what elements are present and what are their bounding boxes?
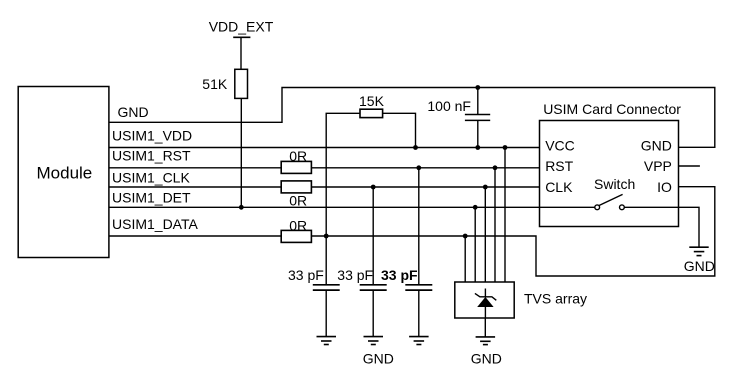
svg-text:TVS array: TVS array [524,291,587,307]
junction cap2 / USIM1_CLK [371,185,376,190]
wire USIM1_DATA right segment to IO pin [312,187,715,276]
svg-text:GND: GND [471,351,502,367]
resistor 51K body [235,69,248,98]
junction cap3 / USIM1_RST [416,165,421,170]
svg-text:51K: 51K [202,76,228,92]
junction 51K / USIM1_DET [239,205,244,210]
wire 15K right lead down to VDD line [383,113,416,147]
svg-text:GND: GND [363,351,394,367]
junction TVS / USIM1_VDD [503,145,508,150]
ground symbol cap1 [317,337,337,345]
wire TVS pin3 to USIM1_CLK [484,187,486,282]
svg-text:100 nF: 100 nF [427,98,471,114]
svg-text:VCC: VCC [545,138,575,154]
wire TVS pin4 to USIM1_RST [494,168,496,282]
resistor 0R (RST) [281,161,311,173]
junction TVS / USIM1_CLK [483,185,488,190]
svg-text:33 pF: 33 pF [337,267,373,283]
TVS array box [455,282,514,318]
svg-text:33 pF: 33 pF [288,267,324,283]
ground symbol cap2 [364,337,384,345]
module box [18,87,109,258]
svg-text:Switch: Switch [594,176,635,192]
svg-text:USIM1_DET: USIM1_DET [112,190,191,206]
svg-text:GND: GND [118,104,149,120]
switch contact right [620,205,625,210]
junction 15K / USIM1_DATA [324,234,329,239]
wire USIM1_DET (module to switch) [109,206,595,208]
junction TVS / USIM1_RST [493,165,498,170]
junction TVS / USIM1_DET [473,205,478,210]
svg-text:VPP: VPP [644,158,672,174]
wire VPP stub [679,165,700,167]
svg-text:CLK: CLK [545,179,573,195]
wire TVS to ground [484,318,486,337]
resistor 0R (DATA) [281,230,311,242]
svg-text:RST: RST [545,158,573,174]
wire 15K left lead down to DATA line [326,113,360,236]
resistor 15K body [360,109,383,117]
junction TVS / USIM1_DATA [463,234,468,239]
wire USIM1_VDD (module to VCC pin) [109,147,540,149]
capacitor 33 pF #3 [405,168,432,337]
svg-text:0R: 0R [289,193,307,209]
svg-text:0R: 0R [289,218,307,234]
svg-text:Module: Module [37,164,93,183]
wire USIM1_RST left segment [109,167,281,169]
junction 15K / USIM1_VDD [413,145,418,150]
svg-text:0R: 0R [289,148,307,164]
svg-text:IO: IO [657,179,672,195]
junction 100nF / USIM1_VDD [475,145,480,150]
wire GND net (module to connector GND pin, top rail) [109,88,715,148]
svg-text:USIM1_RST: USIM1_RST [112,147,191,163]
power symbol VDD_EXT [233,37,250,69]
ground symbol cap3 [409,337,429,345]
wire TVS pin1 to USIM1_DATA [464,236,466,282]
wire USIM1_CLK left segment [109,186,281,188]
ground symbol TVS [476,337,496,345]
capacitor 33 pF #1 [313,236,340,337]
ground symbol switch [689,247,708,255]
svg-text:USIM1_DATA: USIM1_DATA [112,216,198,232]
resistor 0R (CLK) [281,181,311,193]
wire TVS pin2 to USIM1_DET [474,207,476,282]
wire USIM1_CLK right segment [312,186,540,188]
svg-text:VDD_EXT: VDD_EXT [209,19,274,35]
capacitor 33 pF #2 [360,187,387,337]
wire switch to ground [624,207,699,247]
svg-text:33 pF: 33 pF [381,267,418,283]
wire USIM1_RST right segment [312,167,540,169]
connector box USIM Card Connector [540,121,679,227]
wire USIM1_DATA left segment [109,235,281,237]
diode TVS (zener symbol inside box) [475,289,496,319]
svg-text:GND: GND [684,258,715,274]
switch contact left [595,205,600,210]
svg-text:USIM1_CLK: USIM1_CLK [112,169,190,185]
junction 100nF / GND rail [475,85,480,90]
capacitor 100 nF [465,88,490,148]
wire TVS pin5 to USIM1_VDD [504,148,506,283]
svg-text:USIM Card Connector: USIM Card Connector [543,101,681,117]
svg-text:USIM1_VDD: USIM1_VDD [112,127,192,143]
wire 51K bottom to DET line [240,98,242,207]
switch blade [599,194,623,205]
svg-text:15K: 15K [359,93,385,109]
svg-text:GND: GND [641,138,672,154]
